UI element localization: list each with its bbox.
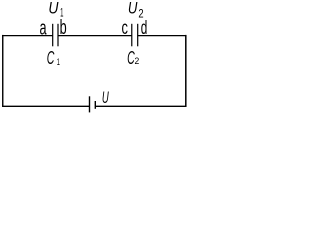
svg-text:U: U (48, 0, 59, 18)
svg-text:d: d (141, 17, 148, 39)
svg-text:a: a (40, 16, 48, 39)
wire left vertical (2, 35, 4, 107)
wire bottom segment right of battery (95, 105, 186, 107)
wire bottom segment left of battery (2, 105, 90, 107)
svg-text:U: U (128, 0, 138, 18)
capacitor C2 (132, 24, 138, 47)
wire right vertical (185, 35, 187, 107)
svg-text:1: 1 (57, 57, 60, 68)
svg-text:c: c (121, 16, 127, 38)
wire top segment from node d (137, 35, 186, 37)
wire top segment to node a (2, 35, 52, 37)
label C1 (47, 48, 60, 69)
label U1 (48, 0, 63, 19)
capacitor C1 (53, 24, 58, 47)
svg-text:b: b (60, 16, 67, 39)
svg-text:2: 2 (134, 56, 139, 66)
battery U (90, 96, 96, 112)
svg-text:U: U (102, 89, 109, 107)
svg-text:C: C (47, 48, 55, 69)
wire top segment b to c (58, 35, 132, 37)
label U2 (128, 0, 144, 21)
label C2 (127, 48, 139, 69)
